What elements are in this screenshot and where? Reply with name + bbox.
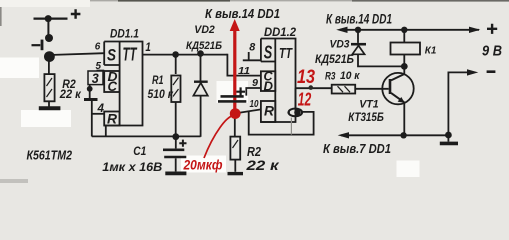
relay K1 coil lead bottom <box>403 55 405 75</box>
junction dot VD2 top <box>197 50 204 57</box>
svg-text:4: 4 <box>96 103 104 115</box>
minus sign right terminal <box>487 70 496 73</box>
svg-text:D: D <box>264 80 274 94</box>
socket X1 circle <box>289 109 303 117</box>
junction dot relay on rail <box>401 27 407 33</box>
wire pin3 box to tbar <box>89 85 91 99</box>
svg-text:КТ315Б: КТ315Б <box>348 110 384 124</box>
red modification arrow to pin 14 <box>233 26 236 110</box>
svg-text:TT: TT <box>279 45 293 62</box>
plus sign supply top-left <box>71 9 81 19</box>
svg-text:К выв.14 DD1: К выв.14 DD1 <box>326 12 392 27</box>
IC DD1.2 R section box <box>261 101 275 122</box>
svg-text:C: C <box>108 78 118 94</box>
wire socket to R pin loop <box>249 111 314 135</box>
capacitor C2 top plate <box>221 95 244 97</box>
IC DD1.2 trigger outer box <box>261 39 296 123</box>
pushbutton SB1 upper contact <box>45 34 53 42</box>
pin 9 wire <box>246 88 261 96</box>
transistor VT1 emitter with arrow <box>391 93 404 103</box>
svg-text:КД521Б: КД521Б <box>315 54 354 66</box>
junction dot bus C1 <box>172 133 179 140</box>
svg-text:R: R <box>107 111 118 127</box>
IC DD1.1 R section box <box>104 112 119 126</box>
capacitor C1 lead bottom <box>175 158 177 171</box>
svg-text:S: S <box>107 46 117 65</box>
diode VD3 lead bottom to collector node <box>358 54 404 66</box>
red callout line from 20mkf <box>204 114 235 158</box>
diode VD2 lead bottom <box>200 96 202 137</box>
svg-text:S: S <box>264 43 273 63</box>
wire R2 left to ground <box>48 101 50 106</box>
white patch behind C2 capacitor <box>217 81 249 103</box>
resistor R2 right lead bottom <box>234 160 236 172</box>
wire DD1.1 bottom to bus <box>105 126 107 137</box>
ground bar under R2 right <box>228 172 244 175</box>
IC DD1.1 DC section box <box>104 71 119 92</box>
transistor VT1 circle <box>382 73 413 104</box>
junction dot right rail <box>445 132 452 139</box>
svg-text:22 к: 22 к <box>59 87 82 101</box>
pushbutton SB1 actuator <box>32 44 41 46</box>
white patch below R2 left <box>21 110 71 127</box>
wire to pin 11 C input DD1.2 <box>227 54 261 76</box>
svg-text:3: 3 <box>92 71 99 86</box>
svg-text:DD1.1: DD1.1 <box>110 26 139 40</box>
junction dot collector node <box>401 63 408 70</box>
svg-text:К выв.14 DD1: К выв.14 DD1 <box>205 6 280 21</box>
node junction on +9V wire <box>45 15 52 22</box>
plus sign right terminal <box>487 24 497 34</box>
relay K1 coil box <box>391 43 421 55</box>
white patch left <box>0 58 39 79</box>
svg-text:22 к: 22 к <box>245 157 279 173</box>
diode VD2 cathode bar <box>194 80 208 82</box>
capacitor C2 bottom plate <box>218 100 246 102</box>
diode VD2 triangle <box>193 83 207 96</box>
pin 10 wire <box>240 109 261 112</box>
svg-text:9 В: 9 В <box>482 44 502 60</box>
pushbutton SB1 lower contact node <box>44 51 55 62</box>
diode VD3 cathode bar <box>351 43 366 46</box>
svg-text:КД521Б: КД521Б <box>186 40 222 52</box>
IC DD1.2 S section box <box>261 39 275 62</box>
wire node to R2 left <box>48 57 50 75</box>
tbar contact <box>84 98 98 101</box>
bottom bus wire <box>92 135 201 137</box>
wire R3 to base VT1 <box>355 88 389 90</box>
IC DD1.1 trigger outer box <box>104 42 142 126</box>
wire +9V top-left <box>34 18 68 20</box>
pin 4 wire <box>92 113 104 115</box>
small dot on pin13 wire <box>309 85 314 90</box>
transistor VT1 base bar <box>389 79 392 94</box>
wire C2 bottom to R2 right <box>234 103 236 137</box>
svg-text:R3: R3 <box>325 70 336 82</box>
ground stub and bar right <box>447 135 449 142</box>
svg-text:510 к: 510 к <box>148 89 175 101</box>
IC DD1.1 S section box <box>104 42 119 66</box>
white patch bottom right <box>397 161 420 178</box>
ground bar under R2 left <box>39 106 61 110</box>
diode VD3 lead top <box>357 30 359 43</box>
svg-text:К1: К1 <box>425 45 437 57</box>
svg-text:6: 6 <box>95 41 101 53</box>
bottom rail with left arrow to pin7 <box>341 134 448 136</box>
IC DD1.2 CD section box <box>261 71 275 91</box>
junction dot R1 top <box>172 51 179 58</box>
pin 5 stub <box>97 69 105 71</box>
boxed pin 3 <box>88 71 103 85</box>
top supply rail with arrow <box>340 29 479 31</box>
svg-text:К561ТМ2: К561ТМ2 <box>27 148 73 162</box>
wire minus terminal <box>448 72 469 135</box>
svg-text:R1: R1 <box>152 75 164 87</box>
svg-text:C1: C1 <box>133 144 146 158</box>
svg-text:8: 8 <box>249 41 256 53</box>
scan border top edge <box>0 0 509 183</box>
capacitor C2 plates redrawn over red <box>218 96 246 101</box>
junction dot VD3 on rail <box>355 27 361 33</box>
capacitor C2 plus sign <box>236 87 245 96</box>
svg-text:VD2: VD2 <box>194 24 215 36</box>
wire pin 13 output DD1.2 to R3 <box>296 87 332 89</box>
resistor R1 lead top <box>175 55 177 75</box>
svg-text:VD3: VD3 <box>330 38 350 50</box>
emitter lead down <box>403 102 405 135</box>
resistor R1 body <box>171 76 180 103</box>
ground bar under C1 <box>165 171 186 175</box>
svg-text:1мк х 16В: 1мк х 16В <box>102 160 162 174</box>
svg-text:VT1: VT1 <box>359 98 379 110</box>
capacitor C1 plus sign <box>179 140 186 147</box>
capacitor C1 top plate <box>163 149 184 152</box>
svg-text:К выв.7 DD1: К выв.7 DD1 <box>323 142 391 156</box>
svg-text:DD1.2: DD1.2 <box>264 25 296 39</box>
wire node to pin 6 S input DD1.1 <box>49 53 104 55</box>
resistor R1 lead bottom <box>175 102 177 137</box>
relay K1 coil lead top <box>403 30 405 43</box>
svg-text:11: 11 <box>238 66 250 77</box>
wire button upper lead <box>47 19 49 35</box>
svg-text:13: 13 <box>297 67 315 88</box>
capacitor C1 bottom plate <box>164 156 186 159</box>
junction dot emitter on rail <box>400 132 406 138</box>
svg-text:R: R <box>264 103 275 119</box>
svg-text:1: 1 <box>145 40 151 54</box>
wire tbar down to bus corner <box>91 101 93 137</box>
faint pencil line socket to bus <box>290 118 292 135</box>
svg-text:TT: TT <box>123 45 138 65</box>
node dot below pin3 box <box>87 86 93 92</box>
white patch behind 20mkf label <box>181 156 226 173</box>
transistor VT1 collector <box>391 74 405 81</box>
diode VD3 triangle <box>352 46 364 55</box>
wire right edge down to socket <box>294 88 296 108</box>
svg-text:12: 12 <box>298 89 312 109</box>
resistor R2 left body <box>44 74 54 101</box>
svg-text:10: 10 <box>250 99 259 110</box>
capacitor C1 lead top <box>175 137 177 149</box>
red node dot C2 <box>230 108 241 119</box>
wire pin1 output DD1.1 <box>143 54 228 56</box>
resistor R2 right body <box>230 137 240 160</box>
pin 8 wire <box>243 52 261 60</box>
svg-text:20мкф: 20мкф <box>183 158 223 173</box>
svg-text:10 к: 10 к <box>340 70 361 82</box>
diode VD2 lead top <box>200 54 202 81</box>
resistor R3 body <box>332 85 356 94</box>
